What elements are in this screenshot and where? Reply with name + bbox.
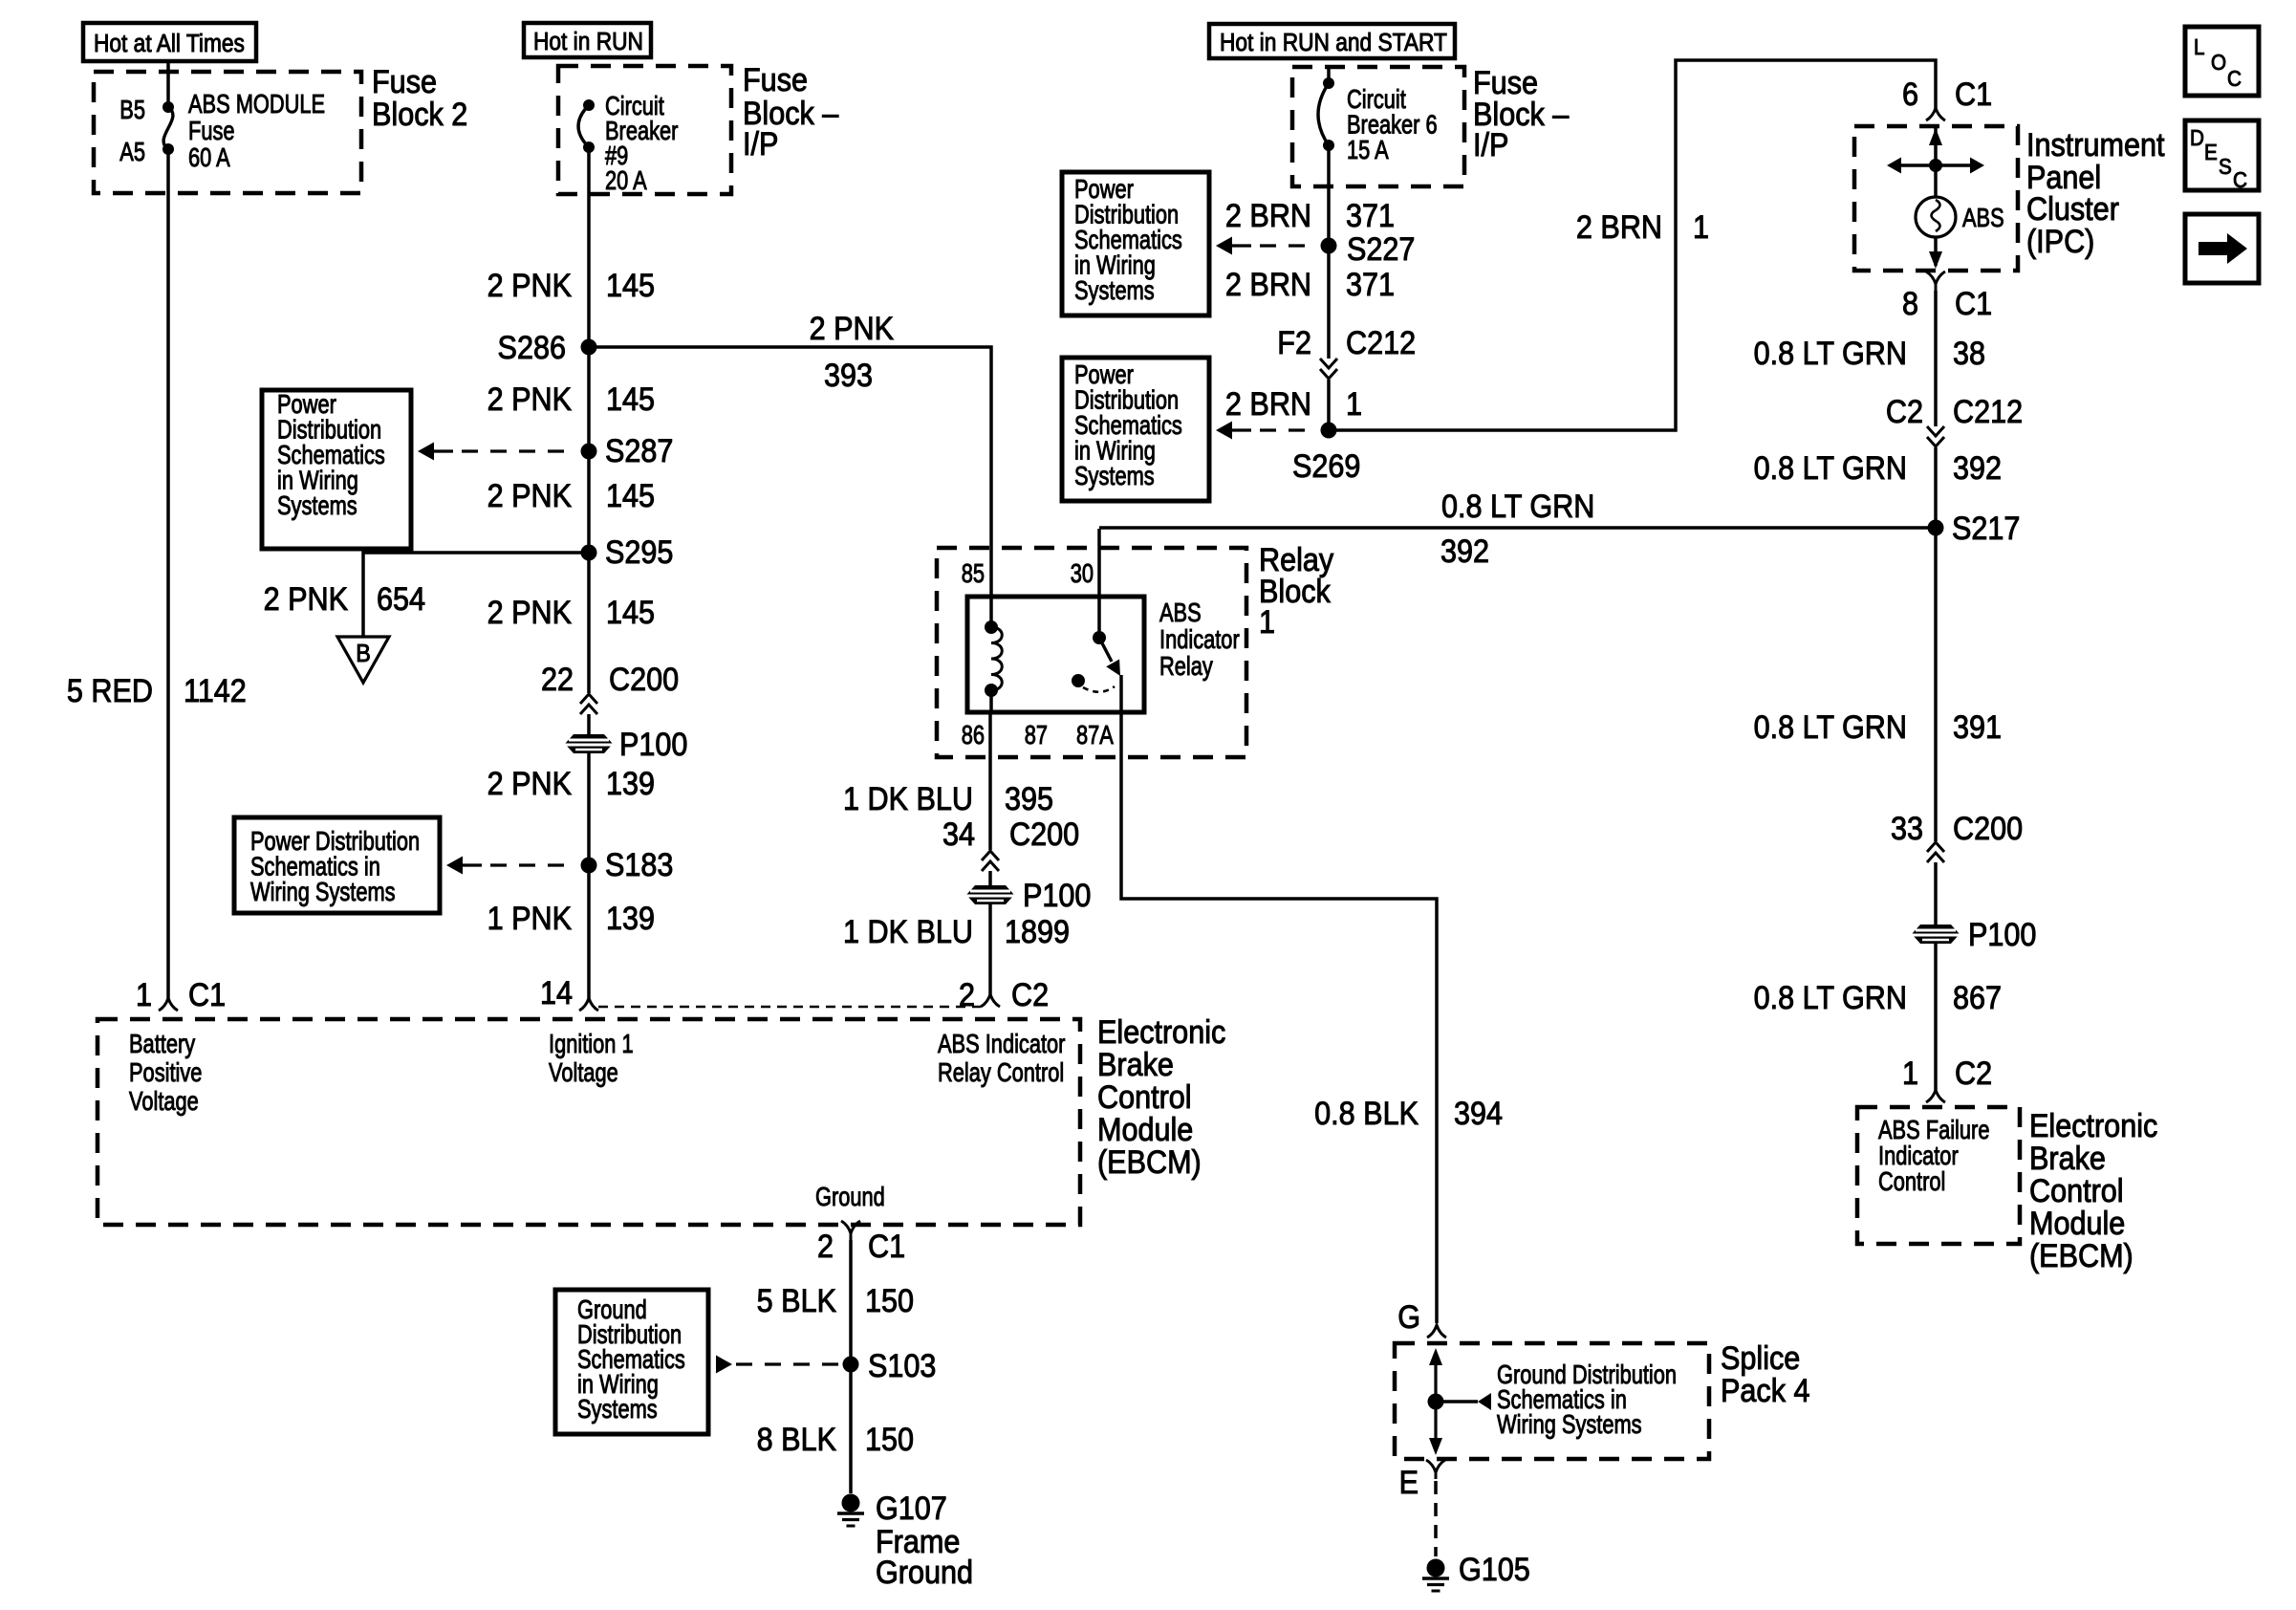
svg-text:145: 145	[606, 595, 655, 631]
wire BLK 150 ground leg	[849, 1240, 853, 1493]
svg-text:60 A: 60 A	[188, 142, 230, 172]
svg-text:Fuse: Fuse	[188, 116, 235, 145]
svg-text:2 PNK: 2 PNK	[487, 595, 573, 631]
svg-text:Block 2: Block 2	[372, 97, 467, 133]
svg-text:Module: Module	[2029, 1206, 2125, 1242]
svg-text:S: S	[2219, 154, 2232, 179]
IPC junction dot	[1929, 159, 1942, 172]
svg-text:G: G	[1397, 1299, 1420, 1336]
splice S217	[1928, 520, 1944, 536]
svg-text:Control: Control	[2029, 1173, 2124, 1209]
off-page triangle B	[337, 637, 389, 683]
svg-text:86: 86	[962, 720, 985, 750]
grommet P100	[966, 885, 1014, 904]
svg-text:C1: C1	[1955, 286, 1992, 322]
svg-text:Wiring Systems: Wiring Systems	[250, 877, 396, 906]
svg-text:87: 87	[1025, 720, 1048, 750]
svg-text:2 PNK: 2 PNK	[487, 478, 573, 514]
svg-text:33: 33	[1891, 811, 1923, 847]
svg-text:34: 34	[942, 816, 975, 853]
svg-text:1: 1	[1346, 386, 1362, 423]
wire 86 inside relay	[989, 690, 993, 712]
wire 2 PNK 145 ignition feed upper	[587, 147, 591, 693]
svg-text:393: 393	[824, 358, 873, 394]
wire 2 PNK 139 lower	[587, 714, 591, 998]
dashed reference arrow from S227	[1216, 237, 1232, 255]
svg-text:C200: C200	[609, 662, 679, 698]
power label box Hot at All Times	[83, 23, 256, 61]
svg-text:B5: B5	[119, 95, 145, 124]
splice pack internal bus with arrows	[1434, 1356, 1437, 1447]
wire 0.8 LT GRN 392 horizontal	[1099, 526, 1936, 530]
svg-text:C2: C2	[1011, 977, 1049, 1013]
splice S269	[1321, 423, 1337, 439]
svg-text:Systems: Systems	[577, 1394, 658, 1424]
svg-text:Fuse: Fuse	[743, 62, 808, 98]
splice S183	[581, 858, 597, 874]
splice S295	[581, 545, 597, 561]
circuit breaker 6 top terminal	[1323, 77, 1334, 89]
connector pin 8 C1 chevron	[1926, 272, 1945, 291]
power label box Hot in RUN and START	[1209, 24, 1455, 58]
svg-text:Brake: Brake	[1097, 1047, 1174, 1083]
svg-text:S269: S269	[1292, 448, 1360, 485]
svg-text:L: L	[2194, 34, 2205, 59]
svg-text:2 PNK: 2 PNK	[487, 766, 573, 802]
svg-text:145: 145	[606, 478, 655, 514]
svg-text:6: 6	[1902, 76, 1918, 113]
svg-text:30: 30	[1071, 558, 1094, 588]
relay coil K winding	[991, 627, 1002, 690]
svg-text:Systems: Systems	[1074, 461, 1155, 490]
svg-text:1: 1	[1693, 209, 1709, 246]
splice S286	[581, 339, 597, 356]
svg-text:(EBCM): (EBCM)	[1097, 1144, 1202, 1181]
svg-text:S227: S227	[1347, 231, 1415, 268]
svg-text:S103: S103	[868, 1348, 936, 1384]
svg-text:S287: S287	[605, 433, 673, 469]
svg-text:Voltage: Voltage	[129, 1086, 199, 1116]
wire 0.8 LT GRN 392/391	[1934, 447, 1938, 841]
splice pack pin E chevron	[1426, 1460, 1445, 1479]
connector pin 1 C2 chevron	[1926, 1090, 1945, 1102]
splice S287	[581, 444, 597, 460]
svg-text:C200: C200	[1009, 816, 1079, 853]
svg-text:E: E	[2204, 140, 2218, 164]
IPC internal horizontal double arrow	[1894, 163, 1978, 166]
dashed reference arrow from S183	[446, 857, 463, 875]
svg-text:87A: 87A	[1076, 720, 1114, 750]
svg-text:2 PNK: 2 PNK	[487, 268, 573, 304]
svg-text:Wiring Systems: Wiring Systems	[1497, 1409, 1642, 1439]
svg-text:0.8 LT GRN: 0.8 LT GRN	[1754, 709, 1907, 746]
dashed wire E to G105	[1434, 1481, 1438, 1556]
svg-text:2 BRN: 2 BRN	[1576, 209, 1662, 246]
ground G105	[1422, 1559, 1449, 1592]
svg-text:0.8 LT GRN: 0.8 LT GRN	[1441, 489, 1594, 525]
connector pin 1 C1 chevron	[159, 998, 178, 1011]
reference box Power Distribution Schematics in Wiring Systems (S227)	[1062, 172, 1209, 315]
svg-text:Fuse: Fuse	[372, 64, 437, 100]
reference box Power Distribution Schematics in Wiring Systems (S287)	[262, 390, 411, 549]
svg-text:Relay: Relay	[1159, 651, 1213, 681]
ABS failure indicator control dashed box	[1857, 1107, 2020, 1244]
svg-text:Pack 4: Pack 4	[1721, 1373, 1810, 1409]
svg-text:Electronic: Electronic	[2029, 1108, 2157, 1144]
svg-text:1142: 1142	[184, 673, 247, 709]
svg-text:392: 392	[1953, 450, 2002, 487]
wire 2 BRN 371	[1327, 145, 1331, 359]
svg-text:Control: Control	[1878, 1166, 1945, 1196]
IPC internal up arrowhead	[1929, 128, 1942, 145]
wire 0.8 LT GRN 38	[1934, 291, 1938, 426]
instrument panel cluster dashed box	[1854, 126, 2018, 271]
svg-text:0.8 BLK: 0.8 BLK	[1314, 1096, 1419, 1132]
svg-text:2 PNK: 2 PNK	[810, 311, 895, 347]
svg-text:1: 1	[1259, 604, 1275, 641]
ground G107	[837, 1494, 864, 1527]
svg-text:2 PNK: 2 PNK	[487, 381, 573, 418]
svg-text:S286: S286	[498, 330, 566, 366]
relay switch pivot terminal	[1093, 631, 1106, 644]
svg-text:15 A: 15 A	[1347, 135, 1389, 164]
relay block 1 dashed box	[937, 548, 1246, 757]
svg-text:1899: 1899	[1005, 914, 1070, 950]
svg-text:C1: C1	[868, 1229, 905, 1265]
relay coil top terminal	[985, 620, 998, 634]
svg-text:Indicator: Indicator	[1159, 624, 1240, 654]
svg-text:145: 145	[606, 381, 655, 418]
splice S227	[1321, 238, 1337, 254]
wire 2 PNK 654 branch to B	[363, 553, 589, 637]
svg-text:G107: G107	[876, 1490, 947, 1527]
relay coil bottom terminal	[985, 684, 998, 697]
IPC internal down arrowhead	[1929, 251, 1942, 269]
svg-text:Ground: Ground	[815, 1182, 885, 1211]
connector pin 6 C1 chevron	[1926, 108, 1945, 120]
svg-text:Ignition 1: Ignition 1	[549, 1029, 634, 1058]
legend box DESC	[2185, 120, 2259, 190]
svg-text:Module: Module	[1097, 1112, 1193, 1148]
svg-text:ABS MODULE: ABS MODULE	[188, 89, 325, 119]
relay switch travel dashed arc	[1083, 686, 1115, 692]
reference box Power Distribution Schematics in Wiring Systems (S269)	[1062, 358, 1209, 501]
svg-text:2: 2	[817, 1229, 834, 1265]
power label box Hot in RUN	[524, 23, 651, 57]
inline connector C212 chevrons	[1927, 437, 1944, 446]
svg-text:(IPC): (IPC)	[2026, 224, 2094, 260]
svg-text:Relay Control: Relay Control	[938, 1057, 1064, 1087]
relay switch NC contact	[1072, 674, 1085, 687]
svg-text:S217: S217	[1952, 511, 2020, 547]
svg-text:I/P: I/P	[743, 126, 778, 163]
splice pack pin G chevron	[1427, 1325, 1446, 1338]
svg-text:C: C	[2227, 66, 2242, 91]
wire 2 BRN 1 to IPC pin 6	[1329, 60, 1936, 430]
svg-text:391: 391	[1953, 709, 2002, 746]
svg-text:392: 392	[1440, 533, 1489, 570]
dotted connector link pin14 to pin2	[598, 1006, 981, 1008]
svg-text:P100: P100	[1023, 878, 1091, 914]
svg-text:0.8 LT GRN: 0.8 LT GRN	[1754, 980, 1907, 1016]
svg-text:Splice: Splice	[1721, 1340, 1800, 1377]
svg-text:139: 139	[606, 901, 655, 937]
svg-text:5 BLK: 5 BLK	[757, 1283, 837, 1319]
svg-text:20 A: 20 A	[605, 165, 647, 195]
dashed reference arrow from S269	[1216, 422, 1232, 440]
circuit breaker 9 element	[578, 105, 589, 147]
svg-text:38: 38	[1953, 336, 1985, 372]
reference box Power Distribution Schematics in Wiring Systems (S183)	[234, 817, 440, 913]
splice S103	[843, 1357, 859, 1373]
svg-text:ABS: ABS	[1159, 598, 1202, 627]
svg-text:1 DK BLU: 1 DK BLU	[843, 781, 973, 817]
circuit breaker 9 top terminal	[583, 99, 595, 111]
svg-text:B: B	[356, 641, 371, 667]
splice pack 4 dashed box	[1395, 1343, 1709, 1459]
connector pin 14 chevron	[579, 998, 598, 1011]
svg-text:S183: S183	[605, 847, 673, 883]
svg-text:8 BLK: 8 BLK	[757, 1422, 837, 1458]
relay switch arm	[1099, 638, 1112, 662]
svg-text:ABS Indicator: ABS Indicator	[938, 1029, 1065, 1058]
reference box Ground Distribution Schematics in Wiring Systems (S103)	[555, 1290, 708, 1434]
svg-text:Ground: Ground	[876, 1555, 973, 1591]
ABS indicator lamp	[1916, 197, 1956, 237]
svg-text:2 BRN: 2 BRN	[1225, 267, 1311, 303]
wire 2 BRN 1	[1327, 380, 1331, 430]
svg-text:Control: Control	[1097, 1079, 1192, 1116]
svg-text:22: 22	[541, 662, 574, 698]
wire 1 DK BLU 395 from relay pin 86	[988, 712, 992, 850]
svg-text:P100: P100	[619, 727, 687, 763]
svg-text:5 RED: 5 RED	[67, 673, 153, 709]
svg-text:C2: C2	[1955, 1055, 1992, 1092]
svg-text:Electronic: Electronic	[1097, 1014, 1225, 1051]
svg-text:394: 394	[1454, 1096, 1503, 1132]
svg-text:0.8 LT GRN: 0.8 LT GRN	[1754, 450, 1907, 487]
fuse block 2 dashed box	[94, 72, 361, 193]
svg-text:C1: C1	[188, 977, 226, 1013]
svg-text:P100: P100	[1968, 917, 2036, 953]
IPC internal wire lower	[1934, 237, 1938, 266]
fuse block IP dashed box (circuit breaker 9)	[558, 66, 731, 194]
svg-text:A5: A5	[119, 137, 145, 166]
svg-text:S295: S295	[605, 534, 673, 571]
legend box LOC	[2185, 27, 2259, 96]
grommet P100	[1912, 925, 1960, 944]
EBCM dashed box	[97, 1019, 1080, 1225]
svg-text:150: 150	[865, 1422, 914, 1458]
svg-text:ABS: ABS	[1962, 203, 2004, 232]
svg-text:1: 1	[136, 977, 152, 1013]
svg-text:C212: C212	[1953, 394, 2023, 430]
svg-text:D: D	[2190, 125, 2204, 150]
splice pack junction dot	[1428, 1394, 1444, 1410]
svg-text:395: 395	[1005, 781, 1053, 817]
wire 0.8 BLK 394 from relay 87A	[1121, 675, 1437, 1323]
svg-text:Systems: Systems	[277, 490, 357, 520]
svg-text:14: 14	[540, 975, 573, 1012]
svg-text:85: 85	[962, 558, 985, 588]
stub wire to breaker 6	[1327, 67, 1331, 83]
svg-text:2 BRN: 2 BRN	[1225, 198, 1311, 234]
circuit breaker 9 bottom terminal	[583, 141, 595, 153]
grommet P100	[565, 734, 613, 753]
svg-text:Positive: Positive	[129, 1057, 202, 1087]
inline connector C212 chevrons	[1320, 369, 1337, 379]
legend box forward arrow	[2185, 214, 2259, 283]
svg-text:Battery: Battery	[129, 1029, 196, 1058]
connector pin 2 C1 chevron	[841, 1221, 860, 1240]
svg-text:C: C	[2233, 167, 2247, 192]
wire 0.8 LT GRN 867	[1934, 862, 1938, 1090]
splice pack reference arrow	[1436, 1400, 1478, 1403]
svg-text:1 DK BLU: 1 DK BLU	[843, 914, 973, 950]
wire relay pin 30 from 392 line	[1097, 529, 1101, 634]
fuse block IP dashed box (circuit breaker 6)	[1292, 67, 1464, 186]
wire hot feed into fuse	[166, 61, 170, 107]
svg-text:2 PNK: 2 PNK	[264, 581, 349, 618]
wire 5 RED 1142 from fuse A5 to EBCM pin 1	[166, 149, 170, 998]
dashed reference arrow from S287	[418, 443, 434, 461]
circuit breaker 6 bottom terminal	[1323, 140, 1334, 151]
svg-text:371: 371	[1346, 267, 1395, 303]
svg-text:1 PNK: 1 PNK	[487, 901, 573, 937]
svg-text:C212: C212	[1346, 325, 1416, 361]
inline connector C200 chevrons	[580, 694, 597, 704]
svg-text:(EBCM): (EBCM)	[2029, 1238, 2134, 1274]
svg-text:C1: C1	[1955, 76, 1992, 113]
svg-text:I/P: I/P	[1473, 127, 1508, 163]
svg-text:145: 145	[606, 268, 655, 304]
svg-text:0.8 LT GRN: 0.8 LT GRN	[1754, 336, 1907, 372]
svg-text:Voltage: Voltage	[549, 1057, 618, 1087]
ABS indicator relay inner box	[967, 597, 1144, 712]
svg-text:654: 654	[377, 581, 425, 618]
svg-text:139: 139	[606, 766, 655, 802]
svg-text:O: O	[2211, 50, 2226, 75]
svg-text:Instrument: Instrument	[2026, 127, 2165, 163]
svg-text:Hot at All Times: Hot at All Times	[94, 31, 245, 58]
svg-text:8: 8	[1902, 286, 1918, 322]
circuit breaker 6 element	[1318, 83, 1329, 145]
wire 2 PNK 393 from S286 to relay pin 85	[589, 347, 991, 623]
connector pin 2 C2 chevron	[981, 994, 1000, 1007]
svg-text:2 BRN: 2 BRN	[1225, 386, 1311, 423]
svg-text:Hot in RUN: Hot in RUN	[533, 29, 643, 56]
svg-text:1: 1	[1902, 1055, 1918, 1092]
svg-text:Brake: Brake	[2029, 1141, 2106, 1177]
svg-text:E: E	[1399, 1465, 1419, 1501]
fuse pin B5 terminal	[162, 101, 174, 113]
svg-text:C2: C2	[1886, 394, 1923, 430]
svg-text:F2: F2	[1277, 325, 1311, 361]
inline connector C200 chevrons	[982, 851, 999, 860]
svg-text:G105: G105	[1459, 1552, 1530, 1588]
svg-text:867: 867	[1953, 980, 2002, 1016]
svg-text:Cluster: Cluster	[2026, 191, 2119, 228]
svg-text:Hot in RUN and START: Hot in RUN and START	[1220, 30, 1447, 57]
svg-text:150: 150	[865, 1283, 914, 1319]
fuse F ABS MODULE 60A element	[163, 107, 173, 149]
dashed reference arrow from S103	[716, 1356, 732, 1374]
svg-text:C200: C200	[1953, 811, 2023, 847]
inline connector C200 chevrons	[1927, 842, 1944, 852]
fuse pin A5 terminal	[162, 143, 174, 155]
svg-text:371: 371	[1346, 198, 1395, 234]
wire 1 DK BLU 1899	[988, 871, 992, 994]
svg-text:Systems: Systems	[1074, 275, 1155, 305]
IPC internal wire upper	[1934, 126, 1938, 198]
